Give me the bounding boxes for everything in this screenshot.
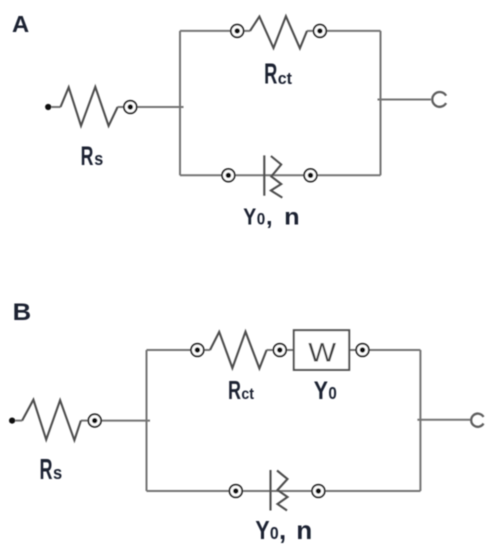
svg-text:R: R [40,454,53,486]
svg-text:Y: Y [314,378,328,405]
svg-text:R: R [228,377,241,405]
svg-text:s: s [53,462,62,483]
svg-text:,: , [266,204,273,230]
svg-text:s: s [94,149,103,169]
svg-text:ct: ct [241,386,254,403]
svg-text:W: W [308,337,337,367]
svg-text:Y: Y [255,517,269,545]
svg-text:0: 0 [257,210,266,229]
svg-text:,: , [279,517,286,545]
svg-text:0: 0 [328,383,336,403]
svg-text:ct: ct [278,69,293,88]
svg-text:Y: Y [243,204,256,230]
svg-text:R: R [81,141,94,171]
svg-text:0: 0 [270,523,279,543]
svg-text:B: B [13,299,32,326]
svg-text:n: n [296,517,312,545]
svg-text:n: n [284,204,300,230]
svg-text:R: R [264,59,277,91]
svg-text:A: A [12,11,29,37]
